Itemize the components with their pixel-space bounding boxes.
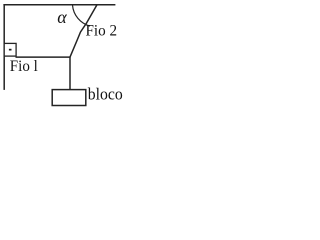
right-angle marker dot — [9, 49, 12, 51]
wire Fio 1 — [16, 56, 71, 58]
wire Fio 2 — [70, 5, 97, 58]
wall — [3, 4, 5, 90]
block bloco — [52, 90, 86, 106]
ceiling — [3, 4, 115, 6]
svg-text:Fio 2: Fio 2 — [86, 23, 118, 40]
vertical wire to block — [69, 57, 71, 90]
angle arc — [73, 5, 91, 26]
svg-text:bloco: bloco — [88, 85, 123, 104]
right-angle marker box — [4, 43, 16, 56]
svg-text:α: α — [57, 7, 67, 27]
svg-text:Fio l: Fio l — [10, 58, 39, 75]
